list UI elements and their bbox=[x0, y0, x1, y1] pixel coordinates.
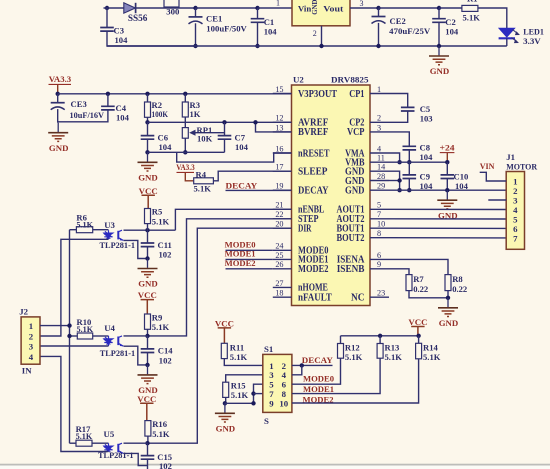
wire R12 top stem bbox=[340, 336, 342, 344]
svg-text:nRESET: nRESET bbox=[298, 148, 330, 159]
svg-text:CE1: CE1 bbox=[206, 13, 222, 23]
svg-text:+24: +24 bbox=[440, 143, 456, 153]
node: CE2 bottom bbox=[376, 44, 380, 48]
capacitor C5 bbox=[401, 107, 415, 111]
capacitor CE2 bbox=[372, 16, 386, 18]
svg-text:7: 7 bbox=[513, 233, 518, 243]
svg-text:DRV8825: DRV8825 bbox=[331, 75, 369, 85]
U2 right pin 6 lead bbox=[370, 258, 389, 260]
capacitor C2 bbox=[432, 19, 446, 23]
resistor R13 bbox=[377, 344, 383, 359]
node: C6 bottom gnd row bbox=[145, 150, 149, 154]
wire DECAY stub pin 19 bbox=[226, 189, 292, 191]
U2 left pin 20 lead bbox=[273, 227, 292, 229]
connector J2 body bbox=[21, 317, 40, 364]
node: S1 pin9 tie bbox=[251, 401, 255, 405]
svg-text:GND: GND bbox=[430, 66, 450, 76]
node: U3 collector / R5 / C11 bbox=[145, 228, 149, 232]
svg-text:DECAY: DECAY bbox=[226, 181, 258, 191]
svg-text:104: 104 bbox=[115, 35, 129, 45]
svg-text:J2: J2 bbox=[19, 306, 28, 316]
wire S1 pin6 MODE0 to R12 bbox=[292, 358, 341, 384]
wire R3 to RP1 bbox=[184, 117, 186, 128]
wire R8 bottom bbox=[447, 291, 449, 298]
wire VA3.3 stem to R4 bbox=[185, 172, 193, 180]
svg-text:R15: R15 bbox=[231, 381, 246, 391]
node: CE2 top bbox=[376, 6, 380, 10]
svg-text:Vin: Vin bbox=[298, 3, 311, 13]
wire AVREF net to chip pin 12 bbox=[148, 121, 292, 123]
wire S1 pin2 DECAY stub bbox=[292, 364, 333, 366]
resistor R1 bbox=[462, 5, 478, 11]
svg-text:24: 24 bbox=[275, 242, 283, 251]
wire ISENA pin6 to R8 bbox=[389, 259, 448, 274]
wire U5 emitter path bbox=[124, 453, 148, 465]
svg-text:2: 2 bbox=[377, 114, 381, 123]
svg-text:Vout: Vout bbox=[323, 3, 343, 13]
svg-text:C7: C7 bbox=[235, 132, 246, 142]
svg-text:VA3.3: VA3.3 bbox=[176, 162, 195, 172]
svg-text:R14: R14 bbox=[423, 343, 439, 353]
U2 left pin 18 lead bbox=[273, 296, 292, 298]
wire U3 emitter path bbox=[124, 240, 148, 258]
U2 left pin 26 lead bbox=[273, 268, 292, 270]
svg-text:470uF/25V: 470uF/25V bbox=[389, 26, 431, 36]
wire RP1 bottom stem bbox=[184, 138, 186, 152]
resistor R7 bbox=[406, 275, 412, 291]
wire R15 bottom to gnd node bbox=[225, 397, 227, 403]
svg-text:5.1K: 5.1K bbox=[423, 352, 441, 362]
svg-text:104: 104 bbox=[264, 26, 278, 36]
svg-text:6: 6 bbox=[377, 251, 381, 260]
U2 left pin 25 lead bbox=[273, 258, 292, 260]
svg-text:5.1K: 5.1K bbox=[152, 216, 170, 226]
resistor R9 bbox=[145, 314, 151, 329]
wire BOUT2 to J1 pin7 bbox=[389, 237, 506, 239]
svg-text:102: 102 bbox=[159, 355, 172, 365]
node: R13 on rail bbox=[378, 334, 382, 338]
resistor R11 bbox=[221, 343, 227, 358]
svg-text:102: 102 bbox=[159, 461, 172, 469]
wire R17 to U5 LED bbox=[92, 442, 109, 444]
svg-text:104: 104 bbox=[455, 181, 469, 191]
svg-text:5.1K: 5.1K bbox=[194, 183, 212, 193]
svg-text:VCC: VCC bbox=[215, 318, 234, 328]
wire J1 pin1 to VIN bbox=[480, 172, 507, 181]
svg-text:GND: GND bbox=[138, 173, 158, 183]
svg-text:4: 4 bbox=[29, 352, 34, 362]
svg-text:7: 7 bbox=[377, 210, 381, 219]
capacitor C1 bbox=[251, 19, 265, 23]
svg-text:GND: GND bbox=[49, 143, 69, 153]
wire pin28 to gnd tie bbox=[389, 180, 400, 182]
svg-text:25: 25 bbox=[275, 251, 283, 260]
switch S1 body bbox=[263, 354, 292, 412]
svg-text:9: 9 bbox=[269, 398, 274, 408]
svg-text:VCP: VCP bbox=[347, 127, 365, 138]
wire C3 top stem bbox=[106, 8, 108, 28]
node: RP1 bottom on gnd row bbox=[183, 150, 187, 154]
wire R10 left lead bbox=[70, 335, 78, 337]
svg-text:6: 6 bbox=[513, 224, 518, 234]
wire U3 collector row bbox=[124, 229, 176, 231]
svg-text:R16: R16 bbox=[152, 419, 168, 429]
ground symbol U3 bbox=[147, 259, 149, 268]
svg-text:C4: C4 bbox=[116, 103, 127, 113]
wire J2 pin1 lead bbox=[40, 325, 70, 327]
svg-text:C14: C14 bbox=[158, 346, 174, 356]
svg-text:5.1K: 5.1K bbox=[385, 352, 403, 362]
svg-text:3: 3 bbox=[360, 0, 364, 8]
svg-text:MOTOR: MOTOR bbox=[506, 162, 538, 172]
svg-text:5.1K: 5.1K bbox=[76, 432, 93, 441]
svg-text:NC: NC bbox=[351, 293, 365, 304]
svg-text:S1: S1 bbox=[264, 344, 273, 354]
wire top rail segment to diode bbox=[104, 7, 124, 9]
U2 left pin 22 lead bbox=[273, 218, 292, 220]
wire U3 LED cathode to J2 pin2 net bbox=[40, 239, 109, 336]
node: U4 collector / R9 / C14 bbox=[145, 334, 149, 338]
svg-text:R7: R7 bbox=[413, 274, 424, 284]
wire C9 column bbox=[408, 162, 410, 175]
svg-text:23: 23 bbox=[377, 289, 385, 298]
wire BOUT1 to J1 pin6 bbox=[389, 227, 506, 229]
svg-text:104: 104 bbox=[116, 113, 130, 123]
resistor R5 bbox=[145, 209, 151, 224]
chip U2 DRV8825 body bbox=[292, 85, 371, 306]
resistor R17 bbox=[76, 440, 92, 446]
wire S1 pin7 lead bbox=[254, 393, 263, 395]
svg-text:U2: U2 bbox=[293, 75, 304, 85]
ground symbol sense resistors bbox=[447, 298, 449, 307]
wire R4 to chip pin 17 SLEEP bbox=[213, 171, 291, 181]
svg-text:DECAY: DECAY bbox=[298, 186, 329, 197]
fuse 300 body bbox=[164, 0, 179, 7]
connector J1 body bbox=[506, 172, 524, 250]
wire C14 bottom bbox=[147, 353, 149, 365]
svg-text:5.1K: 5.1K bbox=[231, 390, 249, 400]
svg-text:VCC: VCC bbox=[139, 186, 158, 196]
capacitor C4 bbox=[101, 106, 115, 110]
wire C1 bottom stem bbox=[257, 22, 259, 46]
wire regulator Vout to CE2 bbox=[350, 7, 379, 9]
wire R6 left lead bbox=[70, 229, 77, 231]
svg-text:5.1K: 5.1K bbox=[463, 12, 481, 22]
node: VA3.3 rail / CE3 bbox=[56, 92, 60, 96]
U2 right pin 28 lead bbox=[370, 180, 389, 182]
wire chip pin 16 nRESET to gnd row bbox=[177, 152, 292, 162]
node: pin13 riser on AVREF line bbox=[253, 120, 257, 124]
capacitor C10 bbox=[441, 175, 455, 179]
node: C2 top bbox=[437, 6, 441, 10]
node: R14 on rail bbox=[416, 334, 420, 338]
wire +24 stem bbox=[446, 153, 448, 163]
svg-text:GND: GND bbox=[439, 318, 459, 328]
wire C7 column bbox=[224, 122, 226, 135]
capacitor C3 bbox=[100, 28, 114, 32]
wire C3 bottom stem to rail bbox=[107, 31, 196, 46]
wire C9 bottom to GND row bbox=[408, 179, 410, 191]
U2 right pin 5 lead bbox=[370, 208, 389, 210]
svg-text:3: 3 bbox=[377, 123, 381, 132]
VA3.3 underline bbox=[49, 83, 72, 85]
node: DECAY pin2/pin4 bbox=[300, 363, 304, 367]
svg-text:LED1: LED1 bbox=[523, 26, 544, 36]
resistor R8 bbox=[445, 275, 451, 291]
regulator U1 body bbox=[292, 0, 350, 26]
node: C1 top bbox=[255, 6, 259, 10]
U2 right pin 3 lead bbox=[370, 131, 389, 133]
svg-text:nFAULT: nFAULT bbox=[298, 293, 332, 304]
svg-text:GND: GND bbox=[345, 186, 365, 197]
svg-text:300: 300 bbox=[166, 6, 180, 16]
svg-text:U3: U3 bbox=[104, 220, 115, 230]
ground symbol near J1 bbox=[446, 190, 448, 199]
resistor R15 bbox=[223, 382, 229, 397]
U2 right pin 4 lead bbox=[370, 152, 389, 154]
wire C15 bottom bbox=[147, 459, 149, 469]
wire RP1 wiper to C7 column bbox=[195, 132, 225, 134]
node: sense gnd bbox=[446, 296, 450, 300]
U2 right pin 1 lead bbox=[370, 93, 389, 95]
node: +24 on VMB bbox=[445, 160, 449, 164]
resistor R14 bbox=[416, 343, 422, 359]
wire R13 top stem bbox=[379, 336, 381, 344]
svg-text:MODE1: MODE1 bbox=[303, 384, 334, 394]
svg-text:9: 9 bbox=[377, 260, 381, 269]
svg-text:0.22: 0.22 bbox=[452, 284, 467, 294]
svg-text:1K: 1K bbox=[190, 109, 201, 119]
U2 right pin 10 lead bbox=[370, 227, 389, 229]
ground symbol C6 bbox=[147, 152, 149, 161]
svg-text:SS56: SS56 bbox=[128, 13, 148, 23]
capacitor CE3 bbox=[51, 102, 65, 104]
resistor R4 bbox=[194, 178, 214, 184]
svg-text:100K: 100K bbox=[152, 109, 169, 119]
svg-text:3: 3 bbox=[513, 195, 518, 205]
svg-text:R4: R4 bbox=[196, 169, 207, 179]
wire R2 top stem bbox=[147, 94, 149, 102]
node: gnd tie at pin28 bbox=[397, 178, 401, 182]
wire C1 node to regulator Vin bbox=[258, 7, 293, 9]
svg-text:1: 1 bbox=[377, 85, 381, 94]
svg-text:2: 2 bbox=[29, 331, 34, 341]
svg-text:28: 28 bbox=[377, 172, 385, 181]
node: R10 on J2 pin1 net bbox=[67, 334, 71, 338]
svg-text:R8: R8 bbox=[452, 274, 463, 284]
wire CE3 stem bbox=[57, 94, 59, 103]
wire CE2 stem bbox=[378, 8, 380, 17]
resistor R3 bbox=[182, 102, 188, 117]
wire C11 bottom bbox=[147, 247, 149, 259]
svg-text:19: 19 bbox=[275, 182, 283, 191]
wire U4 emitter path bbox=[124, 346, 148, 365]
wire U4 collector row bbox=[124, 335, 148, 337]
svg-text:R9: R9 bbox=[152, 313, 163, 323]
capacitor C15 bbox=[141, 456, 155, 460]
svg-text:14: 14 bbox=[377, 163, 385, 172]
svg-text:R1: R1 bbox=[467, 0, 478, 3]
wire VMA pin4 jog bbox=[389, 153, 400, 162]
node: C2 bottom / gnd bbox=[437, 44, 441, 48]
svg-text:BVREF: BVREF bbox=[298, 127, 328, 138]
U2 right pin 8 lead bbox=[370, 237, 389, 239]
svg-text:11: 11 bbox=[377, 154, 385, 163]
wire AOUT1 to J1 pin4 bbox=[389, 208, 506, 210]
svg-text:R11: R11 bbox=[230, 342, 244, 352]
svg-text:20: 20 bbox=[275, 220, 283, 229]
U2 left pin 17 lead bbox=[273, 170, 292, 172]
opto U4 TLP281-1 bbox=[104, 336, 112, 346]
svg-text:16: 16 bbox=[275, 144, 283, 153]
svg-text:5.1K: 5.1K bbox=[152, 429, 170, 439]
wire R9 bottom bbox=[147, 329, 149, 336]
svg-text:SLEEP: SLEEP bbox=[298, 167, 328, 178]
capacitor CE1 bbox=[189, 16, 203, 18]
wire C1 stem bbox=[257, 8, 259, 19]
U2 left pin 19 lead bbox=[273, 189, 292, 191]
svg-text:17: 17 bbox=[275, 163, 283, 172]
wire C5 to CP2 bbox=[389, 111, 408, 122]
svg-text:VCC: VCC bbox=[137, 394, 156, 404]
svg-text:5.1K: 5.1K bbox=[77, 325, 94, 334]
+24 underline bbox=[440, 152, 455, 154]
svg-text:DIR: DIR bbox=[298, 224, 312, 235]
node: top rail left / C3 top bbox=[105, 6, 109, 10]
wire CE3 bottom stem bbox=[57, 109, 59, 123]
wire R11 to S1 pin1 bbox=[224, 359, 262, 366]
svg-text:R13: R13 bbox=[385, 343, 400, 353]
svg-text:2: 2 bbox=[313, 29, 317, 38]
opto U3 TLP281-1 bbox=[104, 230, 112, 239]
svg-text:22: 22 bbox=[275, 210, 283, 219]
svg-text:3: 3 bbox=[29, 341, 34, 351]
svg-text:0.22: 0.22 bbox=[413, 284, 428, 294]
wire C10 column bbox=[446, 162, 448, 175]
U2 right pin 2 lead bbox=[370, 121, 389, 123]
wire MODE1 stub bbox=[226, 258, 273, 260]
svg-text:CE2: CE2 bbox=[390, 16, 406, 26]
wire C7 bottom to gnd row bbox=[224, 139, 226, 152]
svg-text:U4: U4 bbox=[104, 323, 115, 333]
node: U5 collector / R16 / C15 bbox=[145, 441, 149, 445]
svg-text:VA3.3: VA3.3 bbox=[49, 74, 72, 84]
resistor R16 bbox=[145, 421, 151, 437]
node: C14 bottom gnd bbox=[145, 363, 149, 367]
wire C14 column bbox=[147, 336, 149, 349]
svg-text:5.1K: 5.1K bbox=[76, 221, 93, 230]
wire R6 to U3 LED bbox=[93, 229, 109, 231]
svg-text:104: 104 bbox=[420, 152, 434, 162]
svg-text:GND: GND bbox=[216, 424, 236, 434]
resistor R10 bbox=[77, 333, 92, 339]
wire LED1 cathode to rail bbox=[506, 38, 508, 46]
node: R2 top bbox=[145, 92, 149, 96]
svg-text:21: 21 bbox=[275, 201, 283, 210]
svg-text:BOUT2: BOUT2 bbox=[337, 233, 365, 244]
wire CE2 bottom stem bbox=[378, 23, 380, 46]
svg-text:GND: GND bbox=[312, 0, 319, 15]
wire GND pins 14/28 tie bbox=[389, 171, 400, 190]
LED LED1 bbox=[499, 28, 515, 37]
node: C9 bottom on GND row bbox=[407, 188, 411, 192]
wire R2 bottom to AVREF node bbox=[147, 117, 149, 122]
svg-text:GND: GND bbox=[138, 279, 158, 289]
svg-text:15: 15 bbox=[275, 85, 283, 94]
svg-text:13: 13 bbox=[275, 123, 283, 132]
wire C4 bottom to CE3 bottom bbox=[58, 110, 108, 122]
wire VMB row bbox=[389, 161, 447, 163]
opto U5 TLP281-1 bbox=[104, 443, 112, 451]
capacitor C11 bbox=[141, 243, 155, 247]
wire U4 LED cathode to J2 pin3 bbox=[40, 345, 109, 347]
svg-text:102: 102 bbox=[159, 249, 172, 259]
ground symbol CE3 bbox=[57, 123, 59, 132]
wire VCP pin3 to C8 bbox=[389, 132, 409, 146]
svg-text:U5: U5 bbox=[104, 429, 115, 439]
wire C6 bottom stem bbox=[147, 139, 149, 152]
U2 right pin 29 lead bbox=[370, 189, 389, 191]
svg-text:10: 10 bbox=[279, 398, 288, 408]
svg-text:1: 1 bbox=[276, 0, 280, 8]
wire R1 to LED1 bbox=[478, 8, 507, 28]
svg-text:103: 103 bbox=[420, 114, 433, 124]
svg-text:TLP281-1: TLP281-1 bbox=[100, 240, 136, 250]
wire nENBL vertical bbox=[175, 209, 291, 230]
U2 left pin 21 lead bbox=[273, 208, 292, 210]
wire MODE2 stub bbox=[226, 268, 273, 270]
svg-text:10K: 10K bbox=[197, 134, 213, 144]
wire R10 to U4 LED bbox=[93, 335, 109, 337]
svg-text:MODE2: MODE2 bbox=[225, 258, 257, 268]
node: CE1 top bbox=[193, 6, 197, 10]
capacitor C7 bbox=[218, 136, 232, 140]
node: VMA joins VMB bbox=[397, 160, 401, 164]
ground symbol U4 bbox=[147, 365, 149, 374]
wire C2 bottom stem bbox=[438, 22, 440, 46]
ground symbol top section bbox=[438, 46, 440, 55]
wire STEP vertical bbox=[148, 219, 292, 336]
svg-text:R5: R5 bbox=[152, 207, 163, 217]
potentiometer RP1 body bbox=[182, 128, 188, 139]
node: J2 pin1 on net bbox=[67, 323, 71, 327]
U2 right pin 7 lead bbox=[370, 218, 389, 220]
wire C8 bottom to VMB row bbox=[408, 150, 410, 162]
wire DIR vertical bbox=[148, 228, 292, 443]
svg-text:104: 104 bbox=[445, 26, 459, 36]
svg-text:5: 5 bbox=[377, 201, 381, 210]
svg-text:R12: R12 bbox=[345, 343, 360, 353]
wire regulator pin 2 to rail bbox=[321, 26, 323, 46]
capacitor C6 bbox=[141, 136, 155, 140]
svg-text:V3P3OUT: V3P3OUT bbox=[298, 89, 337, 100]
wire R7 bottom to R8 bottom bbox=[409, 291, 448, 298]
svg-text:S: S bbox=[264, 416, 269, 426]
capacitor C9 bbox=[403, 175, 417, 179]
svg-text:10: 10 bbox=[377, 220, 385, 229]
svg-text:1: 1 bbox=[29, 321, 33, 331]
svg-text:3.3V: 3.3V bbox=[523, 36, 541, 46]
U2 right pin 9 lead bbox=[370, 268, 389, 270]
node: R3 top bbox=[183, 92, 187, 96]
svg-text:100uF/50V: 100uF/50V bbox=[206, 24, 247, 34]
node: C11 bottom gnd bbox=[145, 256, 149, 260]
diode SS56 bbox=[124, 3, 136, 13]
node: gnd tie at pin29 row bbox=[397, 188, 401, 192]
wire R3 top stem bbox=[184, 94, 186, 102]
wire C2 stem bbox=[438, 8, 440, 19]
svg-text:VIN: VIN bbox=[480, 161, 495, 171]
